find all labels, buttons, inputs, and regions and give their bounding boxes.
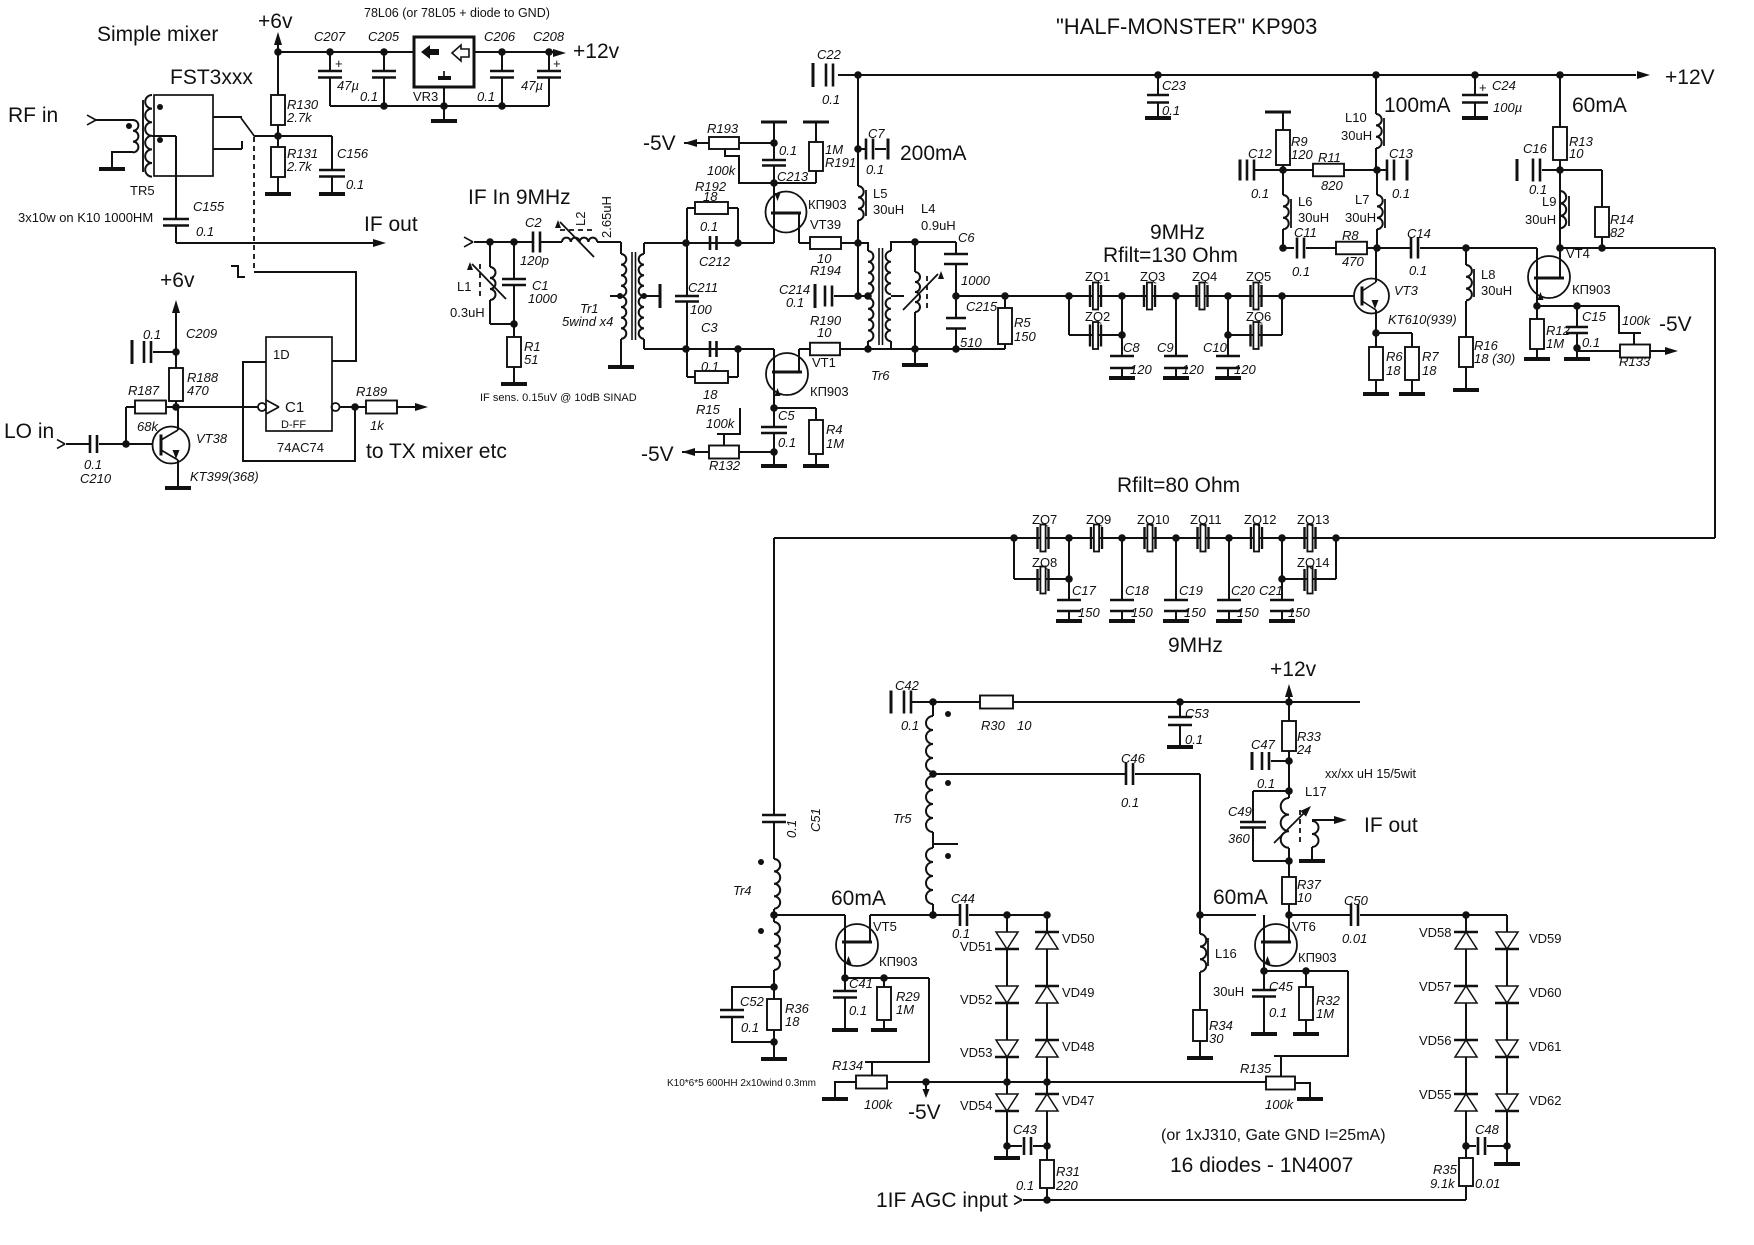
- svg-text:C10: C10: [1203, 340, 1228, 355]
- svg-text:150: 150: [1078, 605, 1100, 620]
- svg-text:VD61: VD61: [1529, 1039, 1562, 1054]
- svg-text:-5V: -5V: [643, 132, 676, 155]
- svg-text:ZQ1: ZQ1: [1085, 269, 1110, 284]
- svg-text:VT6: VT6: [1292, 919, 1316, 934]
- svg-text:360: 360: [1228, 831, 1250, 846]
- svg-text:30uH: 30uH: [1213, 984, 1244, 999]
- svg-text:IF sens. 0.15uV @ 10dB SINAD: IF sens. 0.15uV @ 10dB SINAD: [480, 392, 637, 404]
- svg-text:60mA: 60mA: [831, 887, 886, 910]
- svg-text:ZQ8: ZQ8: [1032, 555, 1057, 570]
- svg-text:120p: 120p: [520, 253, 549, 268]
- svg-text:C16: C16: [1523, 141, 1548, 156]
- svg-text:C19: C19: [1179, 583, 1203, 598]
- svg-text:C13: C13: [1389, 146, 1414, 161]
- svg-text:VT4: VT4: [1566, 246, 1590, 261]
- svg-text:10: 10: [1569, 146, 1584, 161]
- svg-text:0.1: 0.1: [1016, 1178, 1034, 1193]
- svg-text:1000: 1000: [961, 273, 991, 288]
- svg-text:C50: C50: [1344, 893, 1369, 908]
- svg-text:120: 120: [1182, 362, 1204, 377]
- svg-text:RF in: RF in: [8, 104, 58, 127]
- svg-text:5wind x4: 5wind x4: [562, 314, 613, 329]
- svg-text:220: 220: [1055, 1178, 1078, 1193]
- svg-text:ZQ11: ZQ11: [1190, 512, 1222, 527]
- svg-text:C7: C7: [868, 126, 885, 141]
- svg-text:150: 150: [1288, 605, 1310, 620]
- svg-text:C2: C2: [525, 215, 542, 230]
- svg-text:ZQ13: ZQ13: [1297, 512, 1330, 527]
- svg-text:0.1: 0.1: [143, 327, 161, 342]
- svg-text:KT610(939): KT610(939): [1388, 312, 1457, 327]
- svg-text:L6: L6: [1298, 194, 1312, 209]
- svg-text:1M: 1M: [896, 1002, 914, 1017]
- svg-text:150: 150: [1014, 329, 1036, 344]
- svg-text:C209: C209: [186, 326, 217, 341]
- svg-text:VD58: VD58: [1419, 925, 1452, 940]
- svg-text:КП903: КП903: [1572, 282, 1611, 297]
- svg-text:Tr6: Tr6: [871, 368, 890, 383]
- svg-text:C43: C43: [1013, 1122, 1038, 1137]
- svg-text:C18: C18: [1125, 583, 1150, 598]
- svg-text:VT1: VT1: [812, 355, 836, 370]
- svg-text:C51: C51: [808, 808, 823, 832]
- svg-text:L1: L1: [457, 279, 471, 294]
- svg-text:30uH: 30uH: [873, 202, 904, 217]
- svg-text:R187: R187: [128, 383, 160, 398]
- svg-text:C211: C211: [688, 280, 718, 295]
- svg-text:0.1: 0.1: [786, 295, 804, 310]
- svg-text:0.1: 0.1: [849, 1003, 867, 1018]
- svg-text:VD60: VD60: [1529, 985, 1562, 1000]
- svg-text:R193: R193: [707, 121, 739, 136]
- svg-text:C48: C48: [1475, 1122, 1500, 1137]
- svg-text:1000: 1000: [528, 291, 558, 306]
- svg-text:K10*6*5 600HH 2x10wind 0.3mm: K10*6*5 600HH 2x10wind 0.3mm: [667, 1078, 816, 1089]
- svg-text:9.1k: 9.1k: [1430, 1176, 1456, 1191]
- svg-text:510: 510: [960, 335, 982, 350]
- svg-text:C1: C1: [285, 399, 304, 416]
- svg-text:Simple mixer: Simple mixer: [97, 23, 218, 46]
- svg-text:D-FF: D-FF: [281, 419, 306, 431]
- svg-text:R134: R134: [832, 1058, 863, 1073]
- svg-text:VD55: VD55: [1419, 1087, 1452, 1102]
- svg-text:470: 470: [1342, 254, 1364, 269]
- svg-text:18: 18: [1422, 363, 1437, 378]
- svg-text:VD49: VD49: [1062, 985, 1095, 1000]
- svg-text:R6: R6: [1386, 349, 1403, 364]
- svg-text:+6v: +6v: [160, 269, 195, 292]
- svg-text:0.1: 0.1: [1409, 263, 1427, 278]
- svg-text:C17: C17: [1072, 583, 1097, 598]
- svg-text:ZQ2: ZQ2: [1085, 309, 1110, 324]
- svg-text:+: +: [1479, 80, 1487, 95]
- svg-text:-5V: -5V: [1659, 313, 1692, 336]
- svg-text:100k: 100k: [864, 1097, 894, 1112]
- svg-text:FST3xxx: FST3xxx: [170, 66, 253, 89]
- svg-text:R194: R194: [810, 263, 841, 278]
- svg-text:30uH: 30uH: [1298, 210, 1329, 225]
- svg-text:L10: L10: [1345, 110, 1367, 125]
- svg-text:C155: C155: [193, 199, 225, 214]
- svg-text:18: 18: [1386, 363, 1401, 378]
- svg-text:ZQ5: ZQ5: [1246, 269, 1271, 284]
- svg-text:R189: R189: [356, 384, 387, 399]
- svg-text:0.1: 0.1: [1582, 335, 1600, 350]
- svg-text:ZQ14: ZQ14: [1297, 555, 1330, 570]
- svg-text:1IF AGC input: 1IF AGC input: [876, 1189, 1008, 1212]
- svg-text:L9: L9: [1542, 194, 1556, 209]
- svg-text:C46: C46: [1121, 751, 1146, 766]
- svg-text:0.1: 0.1: [84, 457, 102, 472]
- svg-text:Tr4: Tr4: [733, 883, 752, 898]
- svg-text:-5V: -5V: [908, 1101, 941, 1124]
- svg-text:0.1: 0.1: [866, 162, 884, 177]
- svg-text:120: 120: [1291, 147, 1313, 162]
- svg-text:+6v: +6v: [258, 10, 293, 33]
- svg-text:1D: 1D: [273, 347, 290, 362]
- svg-text:150: 150: [1184, 605, 1206, 620]
- svg-text:10: 10: [1017, 718, 1032, 733]
- svg-text:R132: R132: [709, 458, 741, 473]
- svg-text:C49: C49: [1228, 804, 1252, 819]
- svg-text:30uH: 30uH: [1481, 283, 1512, 298]
- svg-text:VT38: VT38: [196, 431, 228, 446]
- svg-text:820: 820: [1321, 178, 1343, 193]
- svg-text:-5V: -5V: [641, 443, 674, 466]
- svg-text:R133: R133: [1619, 354, 1651, 369]
- svg-text:C23: C23: [1162, 78, 1187, 93]
- svg-text:0.1: 0.1: [779, 143, 797, 158]
- svg-text:IF In 9MHz: IF In 9MHz: [468, 186, 571, 209]
- svg-text:100µ: 100µ: [1493, 100, 1522, 115]
- svg-text:ZQ7: ZQ7: [1032, 512, 1057, 527]
- svg-text:VD59: VD59: [1529, 931, 1562, 946]
- svg-text:47µ: 47µ: [521, 78, 543, 93]
- svg-text:ZQ3: ZQ3: [1140, 269, 1165, 284]
- svg-text:R35: R35: [1433, 1162, 1458, 1177]
- svg-text:0.1: 0.1: [1185, 732, 1203, 747]
- svg-text:0.1: 0.1: [778, 435, 796, 450]
- svg-text:ZQ12: ZQ12: [1244, 512, 1277, 527]
- svg-text:+: +: [553, 56, 561, 71]
- svg-text:18: 18: [785, 1014, 800, 1029]
- svg-text:150: 150: [1131, 605, 1153, 620]
- svg-text:+12v: +12v: [1270, 658, 1317, 681]
- svg-text:ZQ10: ZQ10: [1137, 512, 1170, 527]
- svg-text:9MHz: 9MHz: [1150, 221, 1205, 244]
- svg-text:ZQ4: ZQ4: [1192, 269, 1217, 284]
- svg-text:0.1: 0.1: [1392, 186, 1410, 201]
- svg-text:0.1: 0.1: [477, 89, 495, 104]
- svg-text:100mA: 100mA: [1384, 94, 1451, 117]
- svg-text:1k: 1k: [370, 418, 385, 433]
- svg-text:VD62: VD62: [1529, 1093, 1562, 1108]
- svg-text:L8: L8: [1481, 267, 1495, 282]
- svg-text:VD47: VD47: [1062, 1093, 1095, 1108]
- svg-text:0.1: 0.1: [822, 92, 840, 107]
- svg-text:VD53: VD53: [960, 1045, 993, 1060]
- svg-text:ZQ9: ZQ9: [1086, 512, 1111, 527]
- svg-text:0.1: 0.1: [360, 89, 378, 104]
- svg-text:Rfilt=80 Ohm: Rfilt=80 Ohm: [1117, 474, 1240, 497]
- svg-text:TR5: TR5: [130, 183, 155, 198]
- svg-text:9MHz: 9MHz: [1168, 634, 1223, 657]
- svg-text:0.1: 0.1: [346, 177, 364, 192]
- svg-text:82: 82: [1610, 225, 1625, 240]
- svg-text:120: 120: [1130, 362, 1152, 377]
- svg-text:R7: R7: [1422, 349, 1439, 364]
- svg-text:xx/xx uH 15/5wit: xx/xx uH 15/5wit: [1325, 767, 1417, 781]
- svg-text:C8: C8: [1123, 340, 1140, 355]
- svg-text:VT3: VT3: [1394, 283, 1419, 298]
- svg-text:C3: C3: [701, 320, 718, 335]
- svg-text:C20: C20: [1231, 583, 1256, 598]
- svg-text:C24: C24: [1492, 78, 1516, 93]
- svg-text:C215: C215: [966, 299, 998, 314]
- svg-text:78L06 (or 78L05 + diode to GND: 78L06 (or 78L05 + diode to GND): [364, 6, 550, 20]
- svg-text:100k: 100k: [1622, 313, 1652, 328]
- svg-text:C207: C207: [314, 29, 346, 44]
- svg-text:100: 100: [690, 302, 712, 317]
- svg-text:0.3uH: 0.3uH: [450, 305, 485, 320]
- svg-text:1M: 1M: [1546, 336, 1564, 351]
- svg-text:C6: C6: [958, 230, 975, 245]
- svg-text:L7: L7: [1355, 192, 1369, 207]
- svg-text:0.1: 0.1: [700, 219, 718, 234]
- svg-text:0.1: 0.1: [1121, 795, 1139, 810]
- svg-text:C5: C5: [778, 408, 795, 423]
- svg-text:1M: 1M: [1316, 1006, 1334, 1021]
- svg-text:60mA: 60mA: [1213, 886, 1268, 909]
- svg-text:0.1: 0.1: [901, 718, 919, 733]
- svg-text:30uH: 30uH: [1345, 210, 1376, 225]
- svg-text:L4: L4: [921, 201, 935, 216]
- svg-text:C45: C45: [1269, 979, 1294, 994]
- svg-text:0.1: 0.1: [196, 224, 214, 239]
- svg-text:VD54: VD54: [960, 1098, 993, 1113]
- svg-text:+12V: +12V: [1665, 66, 1715, 89]
- svg-text:VD56: VD56: [1419, 1033, 1452, 1048]
- svg-text:VD57: VD57: [1419, 979, 1452, 994]
- svg-text:0.1: 0.1: [1257, 776, 1275, 791]
- svg-text:30uH: 30uH: [1341, 128, 1372, 143]
- svg-text:18: 18: [703, 387, 718, 402]
- svg-text:L5: L5: [873, 186, 887, 201]
- svg-text:VT39: VT39: [810, 217, 841, 232]
- svg-text:C9: C9: [1157, 340, 1174, 355]
- svg-text:VR3: VR3: [413, 89, 438, 104]
- svg-text:47µ: 47µ: [337, 78, 359, 93]
- svg-text:120: 120: [1234, 362, 1256, 377]
- svg-text:IF out: IF out: [1364, 814, 1418, 837]
- svg-text:200mA: 200mA: [900, 142, 967, 165]
- svg-text:C208: C208: [533, 29, 565, 44]
- svg-text:51: 51: [524, 352, 538, 367]
- svg-text:74AC74: 74AC74: [277, 440, 324, 455]
- svg-text:Rfilt=130 Ohm: Rfilt=130 Ohm: [1103, 244, 1238, 267]
- svg-text:1M: 1M: [826, 436, 844, 451]
- svg-text:10: 10: [817, 325, 832, 340]
- svg-text:"HALF-MONSTER" KP903: "HALF-MONSTER" KP903: [1056, 14, 1317, 39]
- svg-text:C205: C205: [368, 29, 400, 44]
- svg-text:VT5: VT5: [873, 919, 897, 934]
- svg-text:(or 1xJ310, Gate GND I=25mA): (or 1xJ310, Gate GND I=25mA): [1161, 1127, 1386, 1144]
- svg-text:0.1: 0.1: [1251, 186, 1269, 201]
- svg-text:2.7k: 2.7k: [286, 159, 313, 174]
- svg-text:R31: R31: [1056, 1164, 1080, 1179]
- svg-text:10: 10: [1297, 890, 1312, 905]
- svg-text:470: 470: [187, 383, 209, 398]
- svg-text:C52: C52: [740, 994, 765, 1009]
- svg-text:0.1: 0.1: [1269, 1005, 1287, 1020]
- svg-text:C47: C47: [1251, 737, 1276, 752]
- svg-text:C22: C22: [817, 47, 842, 62]
- svg-text:L17: L17: [1305, 784, 1327, 799]
- svg-text:C156: C156: [337, 146, 369, 161]
- svg-text:150: 150: [1237, 605, 1259, 620]
- svg-text:C210: C210: [80, 471, 112, 486]
- svg-text:R30: R30: [981, 718, 1006, 733]
- svg-text:30: 30: [1209, 1031, 1224, 1046]
- svg-text:IF out: IF out: [364, 213, 418, 236]
- svg-text:R5: R5: [1014, 315, 1031, 330]
- svg-text:100k: 100k: [1265, 1097, 1295, 1112]
- svg-text:+: +: [335, 56, 343, 71]
- svg-text:18: 18: [703, 189, 718, 204]
- svg-text:R135: R135: [1240, 1061, 1272, 1076]
- svg-text:C42: C42: [895, 678, 920, 693]
- svg-text:R4: R4: [826, 422, 843, 437]
- svg-text:C15: C15: [1582, 309, 1607, 324]
- svg-text:R8: R8: [1342, 228, 1359, 243]
- svg-text:C14: C14: [1407, 226, 1431, 241]
- svg-text:C213: C213: [777, 169, 809, 184]
- svg-text:R11: R11: [1318, 150, 1341, 165]
- svg-text:L2: L2: [573, 212, 588, 226]
- svg-text:VD48: VD48: [1062, 1039, 1095, 1054]
- svg-text:VD52: VD52: [960, 992, 993, 1007]
- svg-text:to TX mixer etc: to TX mixer etc: [366, 440, 507, 463]
- svg-text:Tr5: Tr5: [893, 811, 912, 826]
- svg-text:60mA: 60mA: [1572, 94, 1627, 117]
- svg-text:КП903: КП903: [808, 197, 847, 212]
- svg-text:+12v: +12v: [573, 40, 620, 63]
- svg-text:0.1: 0.1: [1162, 103, 1180, 118]
- svg-text:C12: C12: [1248, 146, 1273, 161]
- svg-text:0.9uH: 0.9uH: [921, 218, 956, 233]
- svg-text:16 diodes - 1N4007: 16 diodes - 1N4007: [1170, 1154, 1353, 1177]
- svg-text:100k: 100k: [706, 416, 736, 431]
- svg-text:KT399(368): KT399(368): [190, 469, 259, 484]
- svg-text:КП903: КП903: [879, 954, 918, 969]
- svg-text:C206: C206: [484, 29, 516, 44]
- svg-text:R15: R15: [696, 402, 721, 417]
- svg-text:КП903: КП903: [810, 384, 849, 399]
- svg-text:0.1: 0.1: [741, 1020, 759, 1035]
- svg-text:68k: 68k: [137, 419, 159, 434]
- svg-text:100k: 100k: [707, 163, 737, 178]
- svg-text:C212: C212: [699, 254, 731, 269]
- svg-text:0.1: 0.1: [784, 820, 799, 838]
- svg-text:C44: C44: [951, 891, 975, 906]
- svg-text:LO in: LO in: [4, 420, 54, 443]
- svg-text:VD50: VD50: [1062, 931, 1095, 946]
- svg-text:R191: R191: [825, 155, 856, 170]
- svg-text:C53: C53: [1185, 706, 1210, 721]
- svg-text:КП903: КП903: [1298, 950, 1337, 965]
- svg-text:24: 24: [1296, 742, 1311, 757]
- svg-text:C21: C21: [1259, 583, 1283, 598]
- svg-text:2.65uH: 2.65uH: [599, 196, 614, 238]
- svg-text:2.7k: 2.7k: [286, 110, 313, 125]
- svg-text:0.1: 0.1: [1292, 264, 1310, 279]
- svg-text:0.01: 0.01: [1342, 931, 1367, 946]
- svg-text:VD51: VD51: [960, 939, 993, 954]
- svg-text:ZQ6: ZQ6: [1246, 309, 1271, 324]
- svg-text:L16: L16: [1215, 946, 1237, 961]
- svg-text:18 (30): 18 (30): [1474, 351, 1515, 366]
- svg-text:3x10w on K10 1000HM: 3x10w on K10 1000HM: [18, 210, 153, 225]
- svg-text:C11: C11: [1294, 225, 1317, 240]
- svg-text:30uH: 30uH: [1525, 212, 1556, 227]
- svg-text:0.01: 0.01: [1475, 1176, 1500, 1191]
